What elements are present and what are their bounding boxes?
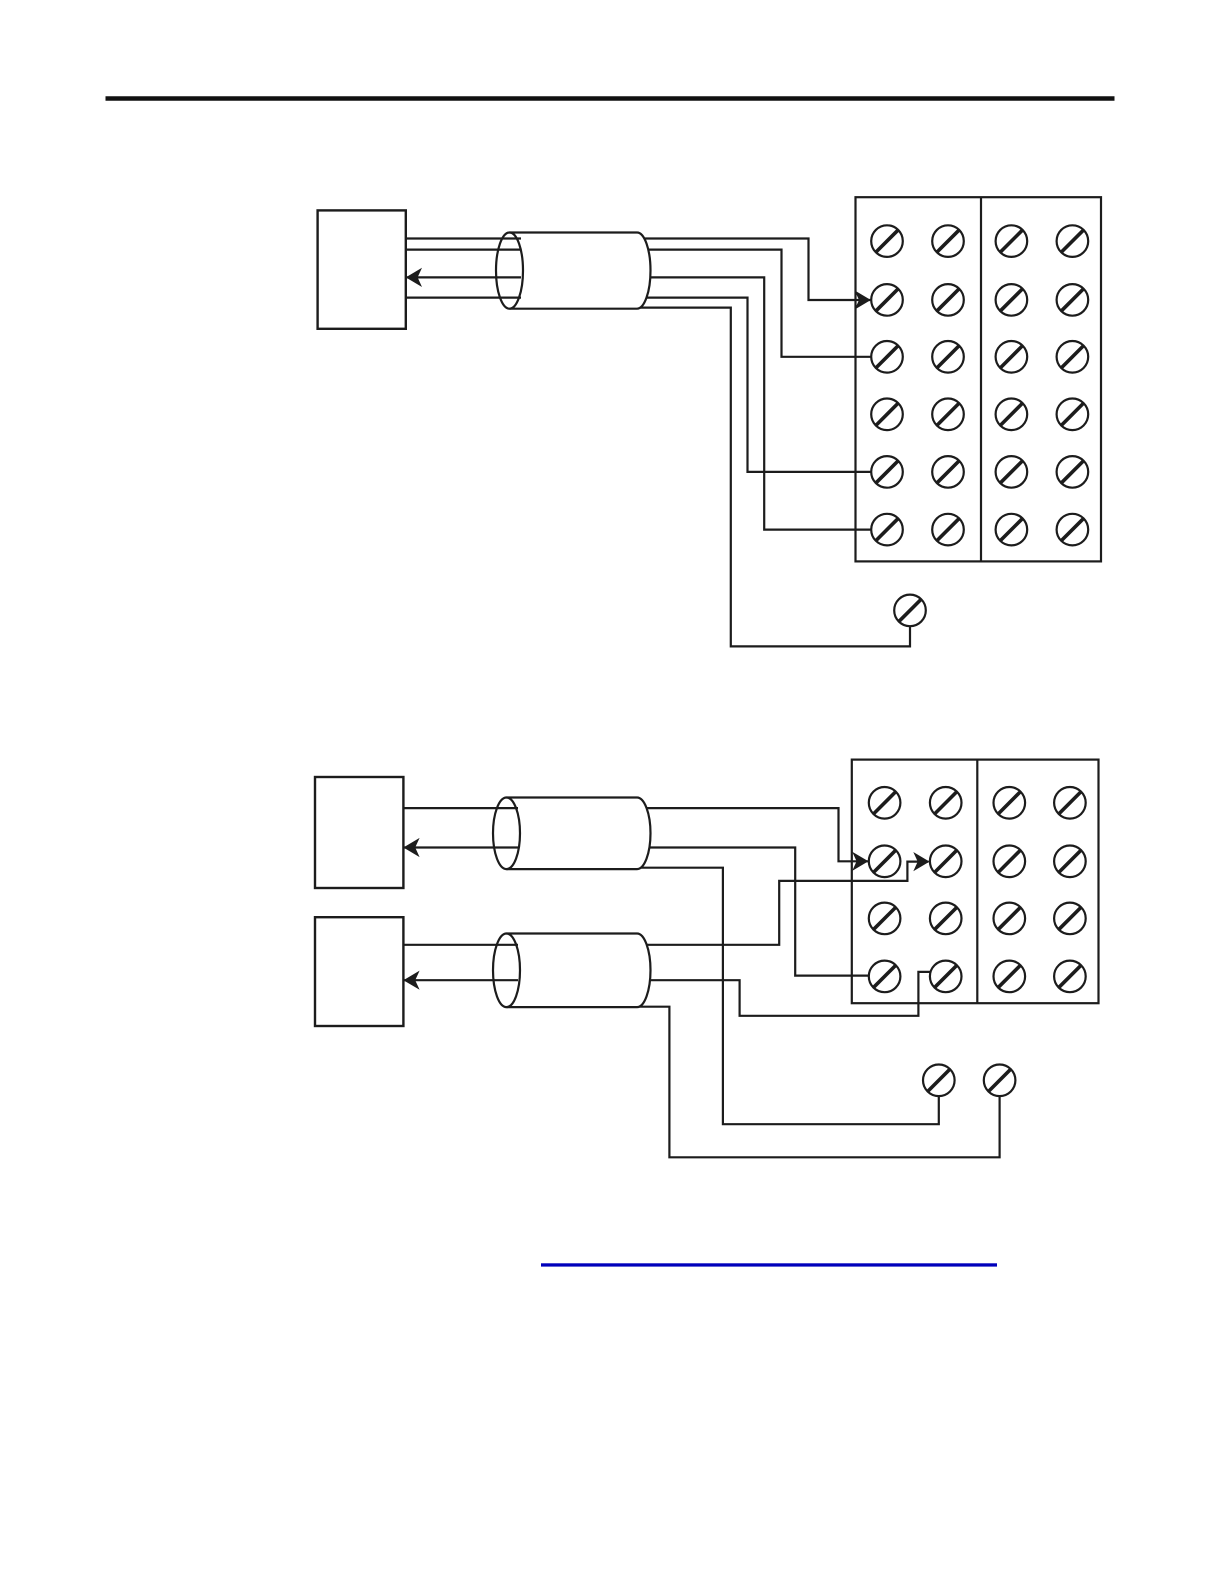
TB1 screw terminals column C <box>996 225 1028 545</box>
wire TB2 terminal 4A to S2 pin2 <box>403 848 884 976</box>
sensor box S1 <box>318 210 406 328</box>
header rule <box>106 96 1115 100</box>
ground screw G2 <box>923 1065 955 1097</box>
TB2 screw terminals column D <box>1054 787 1086 992</box>
cable CB2 outline <box>493 798 651 870</box>
wire TB1 terminal 6A to S1 pin3 <box>406 277 884 529</box>
terminal block TB1 <box>856 197 1102 561</box>
arrowhead into S2 <box>403 838 419 857</box>
wire cable CB3 shield to ground screw G3 <box>639 1007 1000 1158</box>
sensor box S3 <box>315 917 403 1026</box>
arrowhead into S1 <box>406 268 422 287</box>
terminal block TB2 <box>852 760 1099 1004</box>
wire S1 pin1 to TB1 terminal 2A <box>406 239 884 301</box>
TB1 screw terminals column D <box>1057 225 1089 545</box>
TB2 screw terminals column A <box>869 787 901 992</box>
ground screw G3 <box>984 1065 1016 1097</box>
arrowhead into TB2 terminal 2A <box>852 852 868 871</box>
cable CB1 body fill <box>521 233 651 309</box>
cable CB2 body fill <box>518 798 651 870</box>
wire S2 pin1 to TB2 terminal 2A <box>403 808 884 861</box>
arrowhead into TB1 terminal 2A <box>855 290 871 309</box>
ground screw G1 <box>894 595 926 627</box>
TB1 screw terminals column B <box>932 225 964 545</box>
wire TB2 terminal 4B to S3 pin2 <box>403 972 945 1016</box>
TB1 center divider <box>980 197 982 561</box>
TB2 screw terminals column C <box>994 787 1026 992</box>
TB2 center divider <box>976 760 978 1004</box>
TB2 screw terminals column B <box>930 787 962 992</box>
cable CB1 outline <box>496 233 651 309</box>
cable CB3 body fill <box>518 934 651 1008</box>
wire S3 pin1 to TB2 terminal 2B <box>403 862 928 945</box>
wire cable CB1 shield to ground screw G1 <box>639 308 910 647</box>
hyperlink underline <box>541 1263 997 1266</box>
arrowhead into TB2 terminal 2B <box>913 852 929 871</box>
wire S1 pin2 to TB1 terminal 3A <box>406 250 884 357</box>
wire S1 pin4 to TB1 terminal 5A <box>406 298 884 472</box>
wire cable CB2 shield to ground screw G2 <box>639 868 939 1124</box>
TB1 screw terminals column A <box>871 225 903 545</box>
sensor box S2 <box>315 777 403 888</box>
arrowhead into S3 <box>403 971 419 990</box>
cable CB3 outline <box>493 934 651 1008</box>
